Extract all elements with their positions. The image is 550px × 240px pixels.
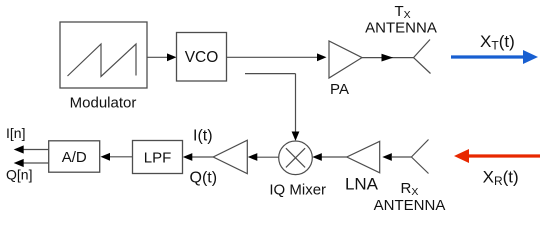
arrowhead into mixer LO port <box>292 132 300 141</box>
amplifier IF <box>213 140 247 174</box>
svg-text:IQ Mixer: IQ Mixer <box>269 182 326 199</box>
LPF block U4 <box>133 141 183 174</box>
svg-text:Modulator: Modulator <box>70 95 137 112</box>
svg-text:PA: PA <box>330 81 349 98</box>
A/D converter block U5 <box>49 141 100 172</box>
wire VCO to PA <box>227 56 320 58</box>
svg-text:VCO: VCO <box>185 49 219 66</box>
wire modulator to VCO <box>147 56 169 58</box>
wire LO tap vertical segment down to mixer <box>295 74 297 133</box>
amplifier LNA <box>345 141 380 193</box>
wire mixer to IF amplifier <box>257 156 279 158</box>
wire A/D to Q[n] output <box>23 162 49 164</box>
svg-text:LPF: LPF <box>144 149 172 166</box>
amplifier PA <box>329 41 362 98</box>
svg-text:A/D: A/D <box>62 149 87 166</box>
arrowhead into A/D <box>101 153 111 161</box>
svg-text:I[n]: I[n] <box>6 125 25 141</box>
wire A/D to I[n] output <box>23 149 49 151</box>
arrowhead into VCO <box>167 53 177 61</box>
arrowhead into LNA <box>382 153 392 161</box>
arrowhead on wire to TX antenna <box>382 54 394 62</box>
wire RX antenna to LNA <box>392 156 411 158</box>
arrowhead into LPF <box>183 153 193 161</box>
svg-text:ANTENNA: ANTENNA <box>365 20 437 37</box>
arrowhead into IF amplifier <box>248 153 257 161</box>
arrowhead into mixer RF port <box>312 153 322 161</box>
svg-text:I(t): I(t) <box>193 128 213 145</box>
svg-text:ANTENNA: ANTENNA <box>374 197 446 214</box>
svg-text:Q[n]: Q[n] <box>6 167 32 183</box>
svg-text:Q(t): Q(t) <box>190 169 218 186</box>
arrowhead into PA <box>317 53 327 61</box>
wire PA to TX antenna <box>362 57 414 59</box>
RX antenna symbol <box>411 140 428 174</box>
modulator block U1 <box>60 22 147 88</box>
VCO block U2 <box>177 33 227 82</box>
received signal arrow XR(t) <box>454 149 540 163</box>
transmitted signal arrow XT(t) <box>451 50 538 64</box>
mixer U3 (IQ mixer) <box>279 141 313 175</box>
wire LNA to mixer <box>321 156 347 158</box>
sawtooth waveform inside modulator <box>68 44 137 77</box>
arrowhead Q[n] output <box>14 159 24 167</box>
wire IF amplifier to LPF <box>192 156 213 158</box>
wire LPF to A/D <box>110 156 133 158</box>
TX antenna symbol <box>414 40 431 74</box>
arrowhead I[n] output <box>14 145 24 153</box>
wire LO tap horizontal segment <box>245 73 296 75</box>
svg-text:LNA: LNA <box>345 175 379 194</box>
